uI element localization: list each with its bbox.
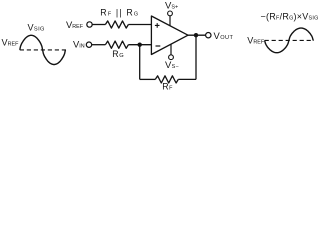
wire: VIN terminal to resistor RG <box>92 44 106 46</box>
wire: VREF terminal to resistor RF||RG <box>92 24 105 26</box>
terminal VREF (open circle) <box>87 22 92 27</box>
terminal VIN (open circle) <box>86 42 91 47</box>
wire: feedback bottom right segment <box>178 78 196 80</box>
output sine waveform (inverted) <box>265 28 314 53</box>
op-amp U1 triangle <box>151 16 188 55</box>
wire: feedback right riser to output node <box>195 35 197 79</box>
wire: feedback left drop from inverting node <box>139 45 141 80</box>
resistor RF||RG (zigzag) <box>105 21 128 28</box>
wire: VS+ stub to op-amp top edge <box>169 16 171 26</box>
wire: resistor RF||RG to op-amp + input <box>128 24 151 26</box>
input sine waveform VSIG about VREF <box>20 35 66 64</box>
junction node: inverting input / feedback <box>138 43 142 47</box>
svg-text:RF || RG: RF || RG <box>100 7 139 17</box>
supply terminal VS- (open circle) <box>169 55 174 60</box>
resistor RF (zigzag, feedback) <box>155 76 178 83</box>
wire: feedback bottom left segment <box>140 78 156 80</box>
wire: VS- stub from op-amp bottom edge <box>170 44 172 55</box>
dashed baseline (right waveform) <box>265 39 314 41</box>
wire: resistor RG to op-amp - input <box>128 44 151 46</box>
supply terminal VS+ (open circle) <box>168 11 173 16</box>
wire: op-amp output <box>188 34 206 36</box>
terminal VOUT (open circle) <box>206 33 211 38</box>
resistor RG (zigzag) <box>105 41 128 48</box>
op-amp - input sign <box>156 45 161 47</box>
junction node: output / feedback <box>194 33 198 37</box>
op-amp + input sign <box>155 23 160 28</box>
dashed baseline (left waveform) <box>20 49 66 51</box>
